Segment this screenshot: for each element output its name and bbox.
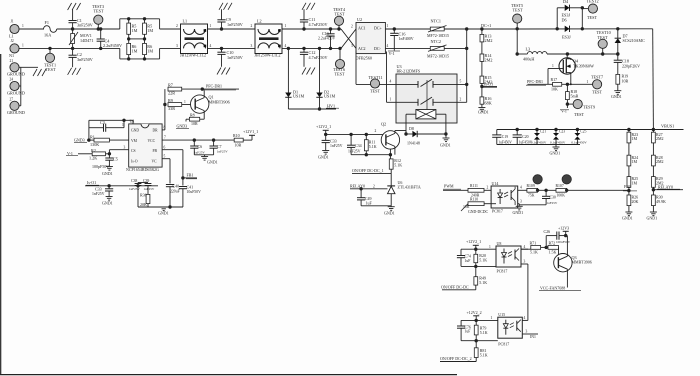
svg-text:1M: 1M <box>632 136 638 141</box>
svg-text:C20: C20 <box>522 135 528 139</box>
svg-text:2M2: 2M2 <box>485 57 493 62</box>
svg-text:1uF: 1uF <box>366 201 373 206</box>
svg-text:R1: R1 <box>90 134 95 139</box>
svg-text:1: 1 <box>489 245 491 249</box>
svg-text:C38: C38 <box>131 179 137 183</box>
svg-text:RELAY0: RELAY0 <box>350 183 365 188</box>
svg-text:U14: U14 <box>492 181 499 186</box>
svg-text:2: 2 <box>487 185 489 189</box>
svg-text:49.9K: 49.9K <box>656 199 666 204</box>
svg-text:3: 3 <box>526 330 528 334</box>
svg-text:US1M: US1M <box>293 94 304 99</box>
svg-text:0.1uF450V: 0.1uF450V <box>571 141 587 145</box>
svg-text:JB1250W-L1L2: JB1250W-L1L2 <box>255 53 281 58</box>
svg-text:C40: C40 <box>173 184 180 189</box>
svg-text:+12V2_1: +12V2_1 <box>316 124 331 129</box>
svg-text:2M2: 2M2 <box>656 136 664 141</box>
svg-text:21: 21 <box>10 59 14 63</box>
svg-text:+12V2_1: +12V2_1 <box>466 239 481 244</box>
svg-text:10R: 10R <box>191 121 198 126</box>
svg-text:130K: 130K <box>90 142 99 147</box>
svg-text:CS: CS <box>131 149 136 153</box>
svg-text:U1: U1 <box>130 118 135 123</box>
svg-text:10uF50V: 10uF50V <box>187 190 202 194</box>
svg-text:R8: R8 <box>190 113 195 118</box>
svg-text:5.1K: 5.1K <box>530 250 538 255</box>
svg-text:5.1K: 5.1K <box>480 330 488 335</box>
svg-text:1nF25V: 1nF25V <box>217 150 228 154</box>
svg-text:GND1: GND1 <box>102 171 113 176</box>
svg-text:1.5K: 1.5K <box>549 250 557 255</box>
svg-text:U8: U8 <box>497 241 502 246</box>
svg-text:R9: R9 <box>168 98 173 103</box>
svg-text:100nF50V: 100nF50V <box>556 240 571 244</box>
svg-text:1M: 1M <box>147 48 153 53</box>
svg-text:C13: C13 <box>322 31 329 36</box>
svg-text:ZTL431BFTA: ZTL431BFTA <box>398 184 421 189</box>
svg-text:TEST: TEST <box>574 112 584 117</box>
svg-text:GND1: GND1 <box>440 142 451 147</box>
svg-text:2: 2 <box>251 24 253 28</box>
svg-text:GROUND: GROUND <box>7 110 25 115</box>
svg-text:GND1: GND1 <box>611 94 622 99</box>
svg-text:1: 1 <box>587 80 589 84</box>
svg-text:1nF25V: 1nF25V <box>92 192 105 196</box>
svg-text:2: 2 <box>176 24 178 28</box>
svg-text:1: 1 <box>491 316 493 320</box>
svg-text:PC817: PC817 <box>497 268 508 273</box>
svg-text:MF72-10D15: MF72-10D15 <box>427 54 449 59</box>
svg-text:R2: R2 <box>91 148 96 153</box>
svg-text:GND1: GND1 <box>513 210 524 215</box>
svg-text:PWM: PWM <box>444 184 454 189</box>
svg-text:GND1: GND1 <box>647 216 658 221</box>
svg-text:2M2: 2M2 <box>485 38 493 43</box>
svg-text:GND1: GND1 <box>318 155 329 160</box>
svg-text:100pF50V: 100pF50V <box>92 164 109 169</box>
svg-text:C21: C21 <box>540 130 546 134</box>
svg-text:C34: C34 <box>355 143 362 148</box>
svg-text:1uF25V: 1uF25V <box>547 201 558 205</box>
svg-text:V-1: V-1 <box>389 51 395 56</box>
svg-text:5.1K: 5.1K <box>479 258 487 263</box>
svg-text:R71: R71 <box>530 240 537 245</box>
svg-text:FB: FB <box>153 149 158 153</box>
svg-text:V-1: V-1 <box>67 151 73 156</box>
svg-text:C5: C5 <box>113 157 118 162</box>
svg-text:C23: C23 <box>559 130 565 134</box>
svg-text:VM: VM <box>131 139 138 143</box>
svg-text:1uF450V: 1uF450V <box>498 140 512 144</box>
svg-text:1uF25V: 1uF25V <box>348 149 361 153</box>
svg-text:GND1: GND1 <box>158 211 169 216</box>
svg-text:DR: DR <box>153 129 159 133</box>
svg-text:TEST: TEST <box>335 12 345 17</box>
svg-text:GND-DCDC: GND-DCDC <box>468 210 489 214</box>
svg-text:VBUS1: VBUS1 <box>661 124 674 129</box>
svg-text:GND1: GND1 <box>384 210 395 215</box>
svg-text:1uF25V: 1uF25V <box>144 187 155 191</box>
svg-text:DC+: DC+ <box>374 26 383 31</box>
svg-text:TEST: TEST <box>587 15 597 20</box>
svg-text:NTC2: NTC2 <box>431 39 441 44</box>
svg-text:GND1: GND1 <box>478 110 489 115</box>
svg-text:TEST: TEST <box>598 35 608 40</box>
svg-text:TEST2: TEST2 <box>587 0 599 4</box>
svg-text:1uF: 1uF <box>465 259 471 263</box>
svg-text:5mR: 5mR <box>571 94 579 99</box>
svg-text:R110: R110 <box>470 198 478 202</box>
svg-text:HV1: HV1 <box>327 103 335 108</box>
svg-text:2.2uF450V: 2.2uF450V <box>103 43 122 48</box>
svg-text:TEST: TEST <box>513 8 523 13</box>
svg-text:1M: 1M <box>132 28 138 33</box>
svg-text:5.1K: 5.1K <box>394 163 402 168</box>
svg-text:Is-O: Is-O <box>131 160 138 164</box>
svg-text:D4: D4 <box>563 0 569 4</box>
svg-text:3: 3 <box>176 44 178 48</box>
svg-text:4: 4 <box>387 44 389 48</box>
svg-text:1: 1 <box>387 24 389 28</box>
svg-text:+12V3: +12V3 <box>558 225 569 230</box>
svg-text:2.2uF450V: 2.2uF450V <box>318 37 335 41</box>
svg-text:GND1: GND1 <box>207 160 218 165</box>
svg-text:D6: D6 <box>562 18 567 23</box>
svg-text:BR-212DMFS: BR-212DMFS <box>397 69 421 74</box>
svg-text:FB1: FB1 <box>187 173 194 178</box>
svg-text:R7: R7 <box>168 83 173 88</box>
svg-text:GROUND: GROUND <box>7 72 25 77</box>
svg-text:FB1: FB1 <box>624 184 631 189</box>
svg-text:5: 5 <box>164 155 166 159</box>
svg-text:2: 2 <box>373 184 375 188</box>
svg-text:4.7nF250V: 4.7nF250V <box>309 22 328 27</box>
svg-text:1M: 1M <box>147 28 153 33</box>
svg-text:TEST: TEST <box>592 90 602 95</box>
svg-text:C39: C39 <box>143 179 149 183</box>
svg-text:5.1K: 5.1K <box>479 280 487 285</box>
svg-text:GND3: GND3 <box>74 138 85 143</box>
svg-text:DC-: DC- <box>374 46 382 51</box>
svg-text:TK39N60W: TK39N60W <box>573 63 594 68</box>
svg-text:4: 4 <box>520 185 522 189</box>
svg-text:PC817: PC817 <box>492 209 503 214</box>
svg-text:5.1K: 5.1K <box>369 144 377 149</box>
svg-text:2: 2 <box>460 98 462 102</box>
svg-text:NCP1654BD65R2G: NCP1654BD65R2G <box>126 167 159 172</box>
svg-text:1nF250V: 1nF250V <box>227 55 243 60</box>
svg-text:1: 1 <box>22 24 24 28</box>
svg-text:5: 5 <box>460 80 462 84</box>
svg-text:IN1: IN1 <box>530 335 536 339</box>
svg-text:2M2: 2M2 <box>656 159 664 164</box>
svg-text:1M: 1M <box>632 159 638 164</box>
svg-text:PFC-DR1: PFC-DR1 <box>527 79 543 84</box>
svg-text:U2: U2 <box>357 17 362 22</box>
svg-text:75K: 75K <box>528 193 535 197</box>
svg-text:TEST11: TEST11 <box>369 75 383 80</box>
svg-text:C26: C26 <box>544 229 551 234</box>
svg-text:RELAY0: RELAY0 <box>658 184 673 189</box>
svg-text:20K: 20K <box>632 199 639 204</box>
svg-text:L1: L1 <box>183 19 188 24</box>
svg-text:400uH: 400uH <box>523 57 534 62</box>
svg-text:TEST: TEST <box>94 9 104 14</box>
svg-text:R72: R72 <box>549 240 556 245</box>
svg-text:ES3J: ES3J <box>562 35 571 40</box>
svg-text:14D471: 14D471 <box>80 38 94 43</box>
svg-text:2M2: 2M2 <box>485 80 493 85</box>
svg-text:27: 27 <box>10 97 14 101</box>
svg-text:1M: 1M <box>132 48 138 53</box>
svg-text:16A: 16A <box>44 33 51 38</box>
svg-text:U15: U15 <box>498 312 505 317</box>
svg-text:22R: 22R <box>168 91 175 96</box>
svg-text:R109: R109 <box>527 184 535 188</box>
svg-text:J1: J1 <box>11 20 14 24</box>
svg-text:C3: C3 <box>100 120 105 125</box>
svg-text:1: 1 <box>552 64 554 68</box>
svg-text:3: 3 <box>251 44 253 48</box>
svg-text:ON/OFF DC-DC_1: ON/OFF DC-DC_1 <box>352 168 384 173</box>
svg-text:TEST7: TEST7 <box>591 74 603 79</box>
svg-text:TEST: TEST <box>370 89 380 94</box>
svg-text:0.1uF450V: 0.1uF450V <box>550 141 566 145</box>
svg-text:VCC: VCC <box>148 139 156 143</box>
svg-text:C25: C25 <box>580 130 586 134</box>
svg-text:+12V2_2: +12V2_2 <box>467 310 482 315</box>
svg-text:GND: GND <box>131 129 139 133</box>
svg-text:1uF: 1uF <box>465 330 471 334</box>
svg-text:AC2: AC2 <box>358 46 366 51</box>
svg-text:ON/OFF DC-DC: ON/OFF DC-DC <box>441 284 469 289</box>
svg-text:L1: L1 <box>9 34 14 39</box>
svg-text:1: 1 <box>390 98 392 102</box>
svg-text:R10: R10 <box>233 133 240 138</box>
svg-text:6: 6 <box>164 145 166 149</box>
svg-text:GND1: GND1 <box>622 216 633 221</box>
svg-text:L3: L3 <box>526 47 531 52</box>
svg-text:33R: 33R <box>168 106 175 111</box>
svg-text:DFB2560: DFB2560 <box>356 56 373 61</box>
svg-text:2: 2 <box>375 129 377 133</box>
svg-text:R107: R107 <box>556 184 564 188</box>
svg-text:7: 7 <box>164 136 166 140</box>
svg-text:+12V1_1: +12V1_1 <box>243 129 258 134</box>
svg-text:68K: 68K <box>485 100 492 105</box>
svg-text:C6: C6 <box>198 144 203 149</box>
svg-text:3: 3 <box>524 260 526 264</box>
svg-text:1N4148: 1N4148 <box>407 141 420 146</box>
svg-text:1uF25V: 1uF25V <box>129 187 140 191</box>
svg-text:AC1: AC1 <box>358 26 366 31</box>
svg-text:R17: R17 <box>551 77 558 82</box>
svg-text:4: 4 <box>210 44 212 48</box>
svg-text:PC817: PC817 <box>498 341 509 346</box>
svg-text:3: 3 <box>124 145 126 149</box>
svg-text:R111: R111 <box>470 184 478 188</box>
svg-text:NTC1: NTC1 <box>431 18 441 23</box>
svg-text:3nF250V: 3nF250V <box>77 57 93 62</box>
svg-text:GND1: GND1 <box>102 201 113 206</box>
svg-text:220uF: 220uF <box>170 189 180 193</box>
svg-text:R36: R36 <box>140 193 147 198</box>
svg-text:10R: 10R <box>622 78 629 83</box>
svg-text:N1: N1 <box>9 53 14 58</box>
svg-text:1nF400V: 1nF400V <box>399 36 414 41</box>
svg-text:TEST: TEST <box>46 67 56 72</box>
svg-text:SCS210AMC: SCS210AMC <box>623 38 646 43</box>
svg-text:1: 1 <box>122 123 124 127</box>
svg-text:1: 1 <box>184 100 186 104</box>
svg-text:JB1250W-L1L2: JB1250W-L1L2 <box>180 53 206 58</box>
svg-text:3nF250V: 3nF250V <box>77 22 93 27</box>
svg-text:1nF25V: 1nF25V <box>330 144 343 148</box>
svg-text:3: 3 <box>351 44 353 48</box>
svg-text:1: 1 <box>22 44 24 48</box>
svg-text:3: 3 <box>520 199 522 203</box>
svg-text:VC: VC <box>152 160 158 164</box>
svg-text:5.1K: 5.1K <box>480 353 488 358</box>
svg-text:GROUND: GROUND <box>7 90 25 95</box>
svg-text:D8: D8 <box>409 126 414 131</box>
svg-text:100K: 100K <box>557 193 566 197</box>
svg-text:ON/OFF DC-DC_2: ON/OFF DC-DC_2 <box>440 356 472 361</box>
svg-text:0.1uF450V: 0.1uF450V <box>531 141 547 145</box>
svg-text:DC+1: DC+1 <box>481 23 491 28</box>
svg-text:TEST9: TEST9 <box>583 105 595 110</box>
svg-text:C33: C33 <box>95 187 102 192</box>
svg-text:20K: 20K <box>140 202 147 207</box>
svg-text:220pF2KV: 220pF2KV <box>622 63 640 68</box>
svg-text:1.2K: 1.2K <box>89 156 97 161</box>
svg-text:1M: 1M <box>632 181 638 186</box>
svg-text:MF72-10D15: MF72-10D15 <box>427 33 449 38</box>
svg-text:8: 8 <box>164 125 166 129</box>
svg-text:GND3: GND3 <box>177 124 188 129</box>
svg-text:V-1: V-1 <box>561 108 567 113</box>
svg-text:Q2: Q2 <box>381 121 386 126</box>
svg-text:Is-O1: Is-O1 <box>87 180 96 185</box>
svg-text:4: 4 <box>524 316 526 320</box>
svg-text:C19: C19 <box>502 135 508 139</box>
svg-text:J2: J2 <box>11 39 14 43</box>
svg-text:1nF250V: 1nF250V <box>227 22 243 27</box>
svg-text:L2: L2 <box>257 19 262 24</box>
svg-text:24: 24 <box>10 78 14 82</box>
svg-text:F1: F1 <box>45 20 49 25</box>
svg-text:MMBT3906: MMBT3906 <box>572 260 592 265</box>
svg-text:1: 1 <box>210 24 212 28</box>
svg-text:C30: C30 <box>550 196 556 200</box>
svg-text:C33: C33 <box>330 138 337 143</box>
svg-text:4.7nF250V: 4.7nF250V <box>309 55 328 60</box>
svg-text:1uF25V: 1uF25V <box>194 151 205 155</box>
svg-text:VCC-FAN7688: VCC-FAN7688 <box>540 285 565 290</box>
svg-text:4: 4 <box>524 245 526 249</box>
svg-text:C7: C7 <box>217 144 222 149</box>
svg-text:MMBT3906: MMBT3906 <box>209 99 230 104</box>
svg-text:1: 1 <box>285 24 287 28</box>
svg-text:PFC-DR1: PFC-DR1 <box>206 84 222 89</box>
svg-text:10R: 10R <box>235 143 242 148</box>
svg-text:TEST: TEST <box>335 71 345 76</box>
svg-text:4: 4 <box>285 44 287 48</box>
svg-text:GND1: GND1 <box>550 151 561 156</box>
svg-text:10K: 10K <box>551 87 558 92</box>
svg-text:4: 4 <box>390 80 392 84</box>
svg-text:US1M: US1M <box>324 94 335 99</box>
svg-text:2: 2 <box>351 25 353 29</box>
